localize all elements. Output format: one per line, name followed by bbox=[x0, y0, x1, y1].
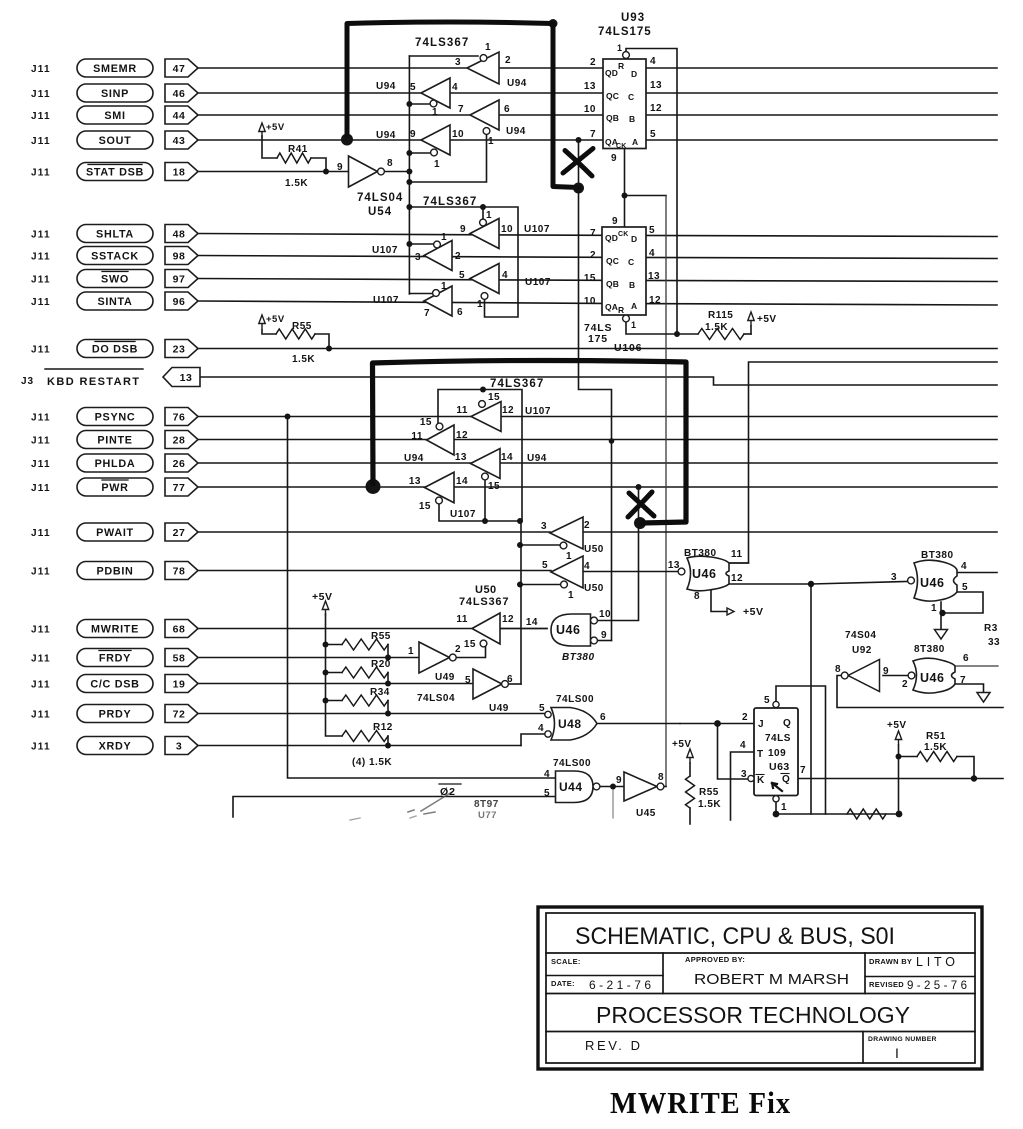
svg-text:2: 2 bbox=[590, 57, 596, 68]
wire PINTE row bbox=[198, 439, 997, 441]
svg-text:STAT DSB: STAT DSB bbox=[86, 166, 144, 178]
inverter U92 74S04 bbox=[848, 660, 880, 692]
wire SHLTA row bbox=[198, 234, 997, 237]
pin bubble U49a out bbox=[449, 654, 456, 661]
svg-text:BT380: BT380 bbox=[684, 548, 717, 559]
buffer U50 gate2 (PDBIN) bbox=[551, 556, 583, 588]
svg-text:U48: U48 bbox=[558, 717, 582, 731]
wire SINTA row bbox=[198, 301, 997, 305]
svg-text:U45: U45 bbox=[636, 808, 656, 819]
svg-text:U54: U54 bbox=[368, 206, 392, 218]
junction bold stub blob bbox=[573, 183, 584, 194]
svg-text:A: A bbox=[632, 137, 638, 147]
svg-text:8: 8 bbox=[835, 664, 841, 675]
svg-text:76: 76 bbox=[173, 411, 186, 423]
svg-text:58: 58 bbox=[173, 652, 186, 664]
wire PDBIN right of buffer into U46b pin13 bbox=[580, 571, 679, 573]
power +5V tag at U46b pin8 bbox=[727, 608, 734, 615]
svg-text:9: 9 bbox=[616, 775, 622, 786]
svg-text:13: 13 bbox=[584, 81, 596, 92]
svg-text:QB: QB bbox=[606, 279, 619, 289]
svg-text:+5V: +5V bbox=[757, 314, 777, 325]
svg-text:2: 2 bbox=[902, 679, 908, 690]
svg-text:10: 10 bbox=[599, 609, 611, 620]
svg-text:BT380: BT380 bbox=[921, 550, 954, 561]
svg-text:C: C bbox=[628, 257, 634, 267]
pin 27 edge connector bbox=[165, 523, 198, 541]
svg-text:68: 68 bbox=[173, 623, 186, 635]
svg-text:+5V: +5V bbox=[743, 606, 763, 618]
node PINTE connector label bbox=[77, 431, 153, 449]
svg-text:74LS367: 74LS367 bbox=[490, 378, 544, 390]
svg-text:A: A bbox=[631, 301, 637, 311]
junction top bold corner bbox=[549, 19, 558, 28]
svg-text:SHLTA: SHLTA bbox=[96, 228, 134, 240]
svg-text:U107: U107 bbox=[525, 277, 551, 288]
svg-text:5: 5 bbox=[650, 129, 656, 140]
wire U94d enable stub bbox=[409, 152, 431, 154]
svg-text:1: 1 bbox=[568, 590, 574, 601]
resistor R115 1.5K bbox=[698, 329, 744, 340]
svg-text:U94: U94 bbox=[506, 126, 526, 137]
svg-text:77: 77 bbox=[173, 482, 186, 494]
svg-text:96: 96 bbox=[173, 296, 186, 308]
pin bubble U50a bbox=[560, 542, 567, 549]
svg-text:9: 9 bbox=[460, 224, 466, 235]
wire U92 input feedback loop bbox=[837, 676, 1003, 708]
pin bubble U107D bbox=[433, 290, 440, 297]
svg-text:DRAWING NUMBER: DRAWING NUMBER bbox=[868, 1036, 937, 1043]
svg-text:Q: Q bbox=[782, 774, 790, 785]
junction DO DSB pull-up bbox=[326, 346, 332, 352]
cut mark X1 (SOUT tap) bbox=[563, 149, 593, 177]
svg-text:11: 11 bbox=[731, 549, 743, 560]
wire PWAIT row bbox=[198, 531, 550, 533]
svg-text:PWR: PWR bbox=[101, 482, 128, 494]
inverter U54 74LS04 (STAT DSB) bbox=[349, 156, 378, 187]
svg-text:2: 2 bbox=[742, 712, 748, 723]
ground arrow U46d pin7 bbox=[977, 693, 990, 703]
svg-text:11: 11 bbox=[456, 614, 468, 625]
wire U63 pin5 preset bbox=[776, 686, 826, 814]
svg-text:PWAIT: PWAIT bbox=[96, 527, 134, 539]
wire U46b pin12 node drop bbox=[810, 584, 812, 814]
svg-text:U107: U107 bbox=[372, 245, 398, 256]
svg-text:R115: R115 bbox=[708, 310, 733, 321]
wire U50a enable stub bbox=[520, 544, 560, 546]
wire U50c enable from U49 bbox=[453, 647, 486, 658]
wire U46b pin8 to +5V tag bbox=[711, 590, 727, 612]
junction clock branch bbox=[622, 193, 628, 199]
wire R55f below bbox=[689, 763, 691, 776]
svg-text:4: 4 bbox=[452, 82, 458, 93]
buffer U107 gate B (SSTACK) bbox=[424, 241, 452, 271]
svg-text:15: 15 bbox=[488, 481, 500, 492]
wire U93 CK to U106 CK bbox=[624, 149, 626, 228]
node SWO connector label bbox=[77, 270, 153, 288]
svg-text:1.5K: 1.5K bbox=[285, 178, 308, 189]
pin bubble U93 reset p1 bbox=[623, 52, 630, 59]
junction PWR tap bbox=[636, 484, 642, 490]
svg-text:(4) 1.5K: (4) 1.5K bbox=[352, 757, 392, 768]
svg-text:U92: U92 bbox=[852, 645, 872, 656]
svg-text:SWO: SWO bbox=[101, 273, 129, 285]
wire U46b pin12 to U46c pin3 bbox=[729, 582, 907, 585]
gate U46 8T380 (first driver) bbox=[687, 556, 729, 591]
svg-text:11: 11 bbox=[456, 405, 468, 416]
svg-text:LITO: LITO bbox=[916, 955, 955, 969]
wire R51 to Qbar bbox=[957, 757, 974, 779]
pin bubble U107A bbox=[480, 219, 487, 226]
buffer U107 gate A (SHLTA) 74LS367 bbox=[470, 219, 499, 249]
svg-text:12: 12 bbox=[731, 573, 743, 584]
pin 58 edge connector bbox=[165, 649, 198, 667]
svg-text:J11: J11 bbox=[31, 653, 51, 664]
junction en U107c/d bbox=[482, 518, 488, 524]
junction PINTE tap bbox=[609, 438, 615, 444]
svg-text:15: 15 bbox=[419, 501, 431, 512]
svg-text:5: 5 bbox=[542, 560, 548, 571]
svg-text:47: 47 bbox=[173, 63, 186, 75]
svg-text:72: 72 bbox=[173, 708, 186, 720]
wire U63 Qbar pin7 bbox=[798, 778, 1003, 780]
pin bubble U46b p13 bbox=[678, 568, 685, 575]
svg-text:C: C bbox=[628, 92, 634, 102]
svg-text:5: 5 bbox=[410, 82, 416, 93]
resistor R34 1.5K bbox=[342, 695, 388, 706]
pin bubble U45 out bbox=[657, 783, 664, 790]
wire bold fix trace top bbox=[347, 22, 579, 188]
wire U106 reset pin1 bbox=[626, 322, 698, 334]
wire C/C DSB row bbox=[198, 683, 473, 685]
svg-text:J3: J3 bbox=[21, 376, 34, 387]
svg-text:+5V: +5V bbox=[672, 739, 692, 750]
svg-text:74LS367: 74LS367 bbox=[459, 596, 509, 608]
wire U49b output to rail bbox=[508, 683, 521, 685]
svg-text:J11: J11 bbox=[31, 435, 51, 446]
junction R20/CC bbox=[385, 681, 391, 687]
svg-text:13: 13 bbox=[648, 271, 660, 282]
node STAT DSB connector label bbox=[77, 163, 153, 181]
svg-text:+5V: +5V bbox=[266, 314, 285, 325]
svg-text:PHLDA: PHLDA bbox=[95, 458, 136, 470]
wire U63 J input bbox=[680, 723, 754, 725]
node MWRITE connector label bbox=[77, 620, 153, 638]
wire U45 output to rail bbox=[664, 786, 666, 788]
pin 19 edge connector bbox=[165, 675, 198, 693]
wire XRDY row bbox=[198, 745, 521, 747]
svg-text:12: 12 bbox=[649, 295, 661, 306]
svg-text:12: 12 bbox=[502, 614, 514, 625]
junction U48/J/K node bbox=[714, 720, 721, 727]
resistor R55 vertical near U63 1.5K bbox=[686, 776, 695, 808]
inverter U45 8T97 bbox=[624, 772, 657, 801]
svg-text:5: 5 bbox=[544, 788, 550, 799]
svg-text:46: 46 bbox=[173, 88, 186, 100]
pin bubble U48 p4 bbox=[545, 731, 551, 737]
wire 74LS367 group2 enable bbox=[409, 207, 518, 317]
svg-text:2: 2 bbox=[455, 644, 461, 655]
svg-text:SMI: SMI bbox=[104, 110, 125, 122]
svg-text:10: 10 bbox=[584, 296, 596, 307]
pin bubble U44 out bbox=[593, 783, 600, 790]
svg-text:1: 1 bbox=[488, 136, 494, 147]
junction R51 tap bbox=[896, 754, 902, 760]
wire U63 reset pin1 net bbox=[776, 802, 899, 814]
svg-text:J11: J11 bbox=[31, 344, 51, 355]
svg-text:QB: QB bbox=[606, 113, 619, 123]
node SHLTA connector label bbox=[77, 225, 153, 243]
junction R41/STATDSB bbox=[323, 169, 329, 175]
buffer U50 gate3 (MWRITE) bbox=[472, 613, 500, 644]
svg-text:R55: R55 bbox=[699, 787, 719, 798]
svg-text:XRDY: XRDY bbox=[99, 740, 132, 752]
svg-text:J11: J11 bbox=[31, 709, 51, 720]
svg-text:1.5K: 1.5K bbox=[698, 799, 721, 810]
pin bubble U107 psync bbox=[479, 401, 486, 408]
buffer U107 gate C (SWO) bbox=[470, 264, 499, 294]
svg-text:+5V: +5V bbox=[266, 122, 285, 133]
power +5V arrow R41 bbox=[259, 123, 265, 137]
svg-text:4: 4 bbox=[544, 769, 550, 780]
pin 46 edge connector bbox=[165, 84, 198, 102]
node C/C DSB connector label bbox=[77, 675, 153, 693]
svg-text:7: 7 bbox=[960, 675, 966, 686]
junction R55/FRDY bbox=[385, 655, 391, 661]
node PDBIN connector label bbox=[77, 562, 153, 580]
wire PSYNC row bbox=[198, 416, 997, 418]
svg-text:1: 1 bbox=[486, 210, 492, 221]
svg-text:QC: QC bbox=[606, 256, 619, 266]
svg-text:R55: R55 bbox=[292, 321, 312, 332]
wire STAT DSB row bbox=[198, 171, 349, 173]
junction R51/Qbar bbox=[971, 775, 977, 781]
power +5V arrow R51 bbox=[895, 731, 901, 745]
svg-text:78: 78 bbox=[173, 565, 186, 577]
svg-text:QA: QA bbox=[605, 302, 618, 312]
pin bubble U48 p5 bbox=[545, 711, 551, 717]
wire U46a pin9 to rail bbox=[598, 640, 612, 642]
svg-text:175: 175 bbox=[588, 333, 608, 345]
svg-text:KBD RESTART: KBD RESTART bbox=[47, 376, 140, 388]
svg-text:5: 5 bbox=[764, 695, 770, 706]
junction rail en g3 bbox=[406, 179, 412, 185]
svg-text:U46: U46 bbox=[556, 623, 580, 637]
pin bubble U94g3 bbox=[483, 128, 490, 135]
junction reset net right bbox=[896, 811, 903, 818]
wire PRDY row bbox=[198, 713, 545, 715]
pin 18 edge connector bbox=[165, 163, 198, 181]
wire mid enable line y389 bbox=[438, 390, 522, 522]
wire U46c pin5 loop bbox=[945, 592, 984, 613]
svg-text:APPROVED BY:: APPROVED BY: bbox=[685, 955, 745, 964]
pin bubble U46a p9 bbox=[591, 637, 598, 644]
buffer U94 gate (PHLDA) bbox=[471, 449, 501, 479]
svg-text:U107: U107 bbox=[450, 509, 476, 520]
svg-text:14: 14 bbox=[526, 617, 538, 628]
power +5V arrow R115 bbox=[748, 312, 754, 326]
svg-text:3: 3 bbox=[541, 521, 547, 532]
junction rail grp2 bbox=[406, 204, 412, 210]
IC U106 74LS175 quad flip-flop bbox=[602, 227, 646, 315]
svg-text:74LS04: 74LS04 bbox=[357, 192, 403, 204]
svg-text:13: 13 bbox=[455, 452, 467, 463]
svg-text:12: 12 bbox=[456, 430, 468, 441]
svg-text:J11: J11 bbox=[31, 741, 51, 752]
wire R51 left bbox=[899, 756, 918, 758]
pin bubble U54 out bbox=[378, 168, 385, 175]
svg-text:U106: U106 bbox=[614, 342, 642, 354]
svg-text:U50: U50 bbox=[584, 544, 604, 555]
svg-text:109: 109 bbox=[768, 748, 786, 759]
pin bubble U106 reset p1 bbox=[623, 315, 630, 322]
svg-text:33: 33 bbox=[988, 637, 1000, 648]
junction rail en g2 bbox=[406, 101, 412, 107]
svg-text:13: 13 bbox=[409, 476, 421, 487]
svg-text:SSTACK: SSTACK bbox=[91, 250, 139, 262]
svg-text:1: 1 bbox=[931, 603, 937, 614]
pin 48 edge connector bbox=[165, 225, 198, 243]
resistor R55 top wiring bbox=[262, 330, 276, 334]
pin 28 edge connector bbox=[165, 431, 198, 449]
U63 R clock arrow glyph bbox=[772, 783, 782, 791]
wire U107c enable drop bbox=[484, 480, 486, 522]
svg-text:74LS00: 74LS00 bbox=[556, 694, 594, 705]
svg-text:1: 1 bbox=[485, 42, 491, 53]
wire U46b pin11 bbox=[729, 562, 749, 564]
svg-text:74LS367: 74LS367 bbox=[423, 196, 477, 208]
svg-text:3: 3 bbox=[891, 572, 897, 583]
resistor R41 wiring bbox=[262, 136, 277, 158]
svg-text:6: 6 bbox=[963, 653, 969, 664]
svg-text:4: 4 bbox=[961, 561, 967, 572]
svg-text:2: 2 bbox=[455, 251, 461, 262]
svg-text:15: 15 bbox=[464, 639, 476, 650]
buffer U94 gate1 (SMEMR) 74LS367 bbox=[467, 52, 499, 84]
wire SOUT row bbox=[198, 139, 997, 141]
wire net right of U93 reset corner bbox=[729, 362, 997, 563]
svg-text:1: 1 bbox=[566, 551, 572, 562]
svg-text:J11: J11 bbox=[31, 167, 51, 178]
svg-text:T: T bbox=[757, 749, 764, 760]
pin 23 edge connector bbox=[165, 340, 198, 358]
junction grp2 en right bbox=[480, 204, 486, 210]
junction U46c p1/p5 bbox=[939, 610, 945, 616]
junction SOUT/bold fix bbox=[341, 134, 353, 146]
gate U46 8T380 (second driver right) bbox=[914, 560, 957, 601]
wire U48 output to J node bbox=[597, 723, 680, 725]
svg-text:R3: R3 bbox=[984, 623, 998, 634]
wire U93/U106 reset pull-up rail bbox=[626, 49, 677, 335]
junction U54 out rail bbox=[406, 169, 412, 175]
pin bubble U50c en15 bbox=[480, 640, 487, 647]
svg-text:PROCESSOR TECHNOLOGY: PROCESSOR TECHNOLOGY bbox=[596, 1002, 910, 1028]
svg-text:SCALE:: SCALE: bbox=[551, 957, 581, 966]
svg-text:74LS: 74LS bbox=[765, 733, 791, 744]
svg-text:98: 98 bbox=[173, 250, 186, 262]
wire U44 output node bbox=[600, 786, 624, 788]
svg-text:J11: J11 bbox=[31, 229, 51, 240]
svg-text:U63: U63 bbox=[769, 761, 790, 773]
svg-text:44: 44 bbox=[173, 110, 186, 122]
pin bubble U46c p3 bbox=[908, 577, 915, 584]
svg-text:2: 2 bbox=[584, 520, 590, 531]
svg-text:8: 8 bbox=[694, 591, 700, 602]
svg-text:4: 4 bbox=[740, 740, 746, 751]
svg-text:DATE:: DATE: bbox=[551, 979, 575, 988]
svg-text:5: 5 bbox=[465, 675, 471, 686]
svg-text:1: 1 bbox=[408, 646, 414, 657]
wire PWAIT right of buffer bbox=[583, 531, 997, 533]
svg-text:1.5K: 1.5K bbox=[705, 322, 728, 333]
wire U46c pin1 to arrow bbox=[940, 602, 942, 629]
wire SOUT tap rail x578 bbox=[579, 140, 612, 641]
svg-text:R12: R12 bbox=[373, 722, 393, 733]
junction PWR bold blob bbox=[366, 479, 381, 494]
svg-text:4: 4 bbox=[649, 248, 655, 259]
node FRDY connector label bbox=[77, 649, 153, 667]
svg-text:1: 1 bbox=[441, 281, 447, 292]
svg-text:74LS00: 74LS00 bbox=[553, 758, 591, 769]
wire U46a pin10 to cut point bbox=[598, 487, 639, 621]
svg-text:8T380: 8T380 bbox=[914, 644, 945, 655]
wire FRDY row bbox=[198, 657, 419, 659]
buffer U94 gate (PINTE) bbox=[427, 425, 455, 455]
junction U44 out node bbox=[610, 784, 616, 790]
pin bubble U92 in8 bbox=[841, 672, 848, 679]
svg-text:K: K bbox=[757, 775, 765, 786]
pin bubble U94 pinte bbox=[436, 423, 443, 430]
node SSTACK connector label bbox=[77, 247, 153, 265]
svg-text:3: 3 bbox=[455, 57, 461, 68]
svg-text:4: 4 bbox=[584, 561, 590, 572]
svg-text:U49: U49 bbox=[435, 672, 455, 683]
wire PDBIN row bbox=[198, 570, 551, 572]
svg-text:J11: J11 bbox=[31, 297, 51, 308]
junction en rail mid bbox=[517, 518, 523, 524]
junction en U50a bbox=[517, 542, 523, 548]
wire U107pwr enable drop bbox=[439, 504, 520, 522]
svg-text:QC: QC bbox=[606, 91, 619, 101]
wire MWRITE buffer input to U46 bbox=[500, 628, 547, 630]
svg-text:U77: U77 bbox=[478, 810, 497, 821]
wire +5V drop to R-net bbox=[898, 745, 900, 814]
wire SWO row bbox=[198, 279, 997, 282]
svg-text:SOUT: SOUT bbox=[99, 135, 132, 147]
svg-text:1.5K: 1.5K bbox=[292, 354, 315, 365]
svg-text:J11: J11 bbox=[31, 528, 51, 539]
pin bubble U94 phlda bbox=[482, 473, 489, 480]
junction rail en g4 bbox=[406, 150, 412, 156]
svg-text:5: 5 bbox=[962, 582, 968, 593]
wire long clock rail x666 bbox=[665, 196, 667, 787]
title block outer frame bbox=[538, 907, 982, 1069]
pin bubble U46a p10 bbox=[591, 617, 598, 624]
wire phi2 line to U44 pin5 bbox=[233, 797, 556, 818]
svg-text:J11: J11 bbox=[31, 274, 51, 285]
svg-text:7: 7 bbox=[458, 104, 464, 115]
junction R34/PRDY bbox=[385, 711, 391, 717]
pin 76 edge connector bbox=[165, 408, 198, 426]
pin 72 edge connector bbox=[165, 705, 198, 723]
pin 68 edge connector bbox=[165, 620, 198, 638]
svg-text:U93: U93 bbox=[621, 12, 645, 24]
wire U107d enable stub bbox=[409, 293, 432, 295]
wire KBD RESTART row with jog bbox=[200, 377, 997, 385]
svg-text:26: 26 bbox=[173, 458, 186, 470]
wire PHLDA row bbox=[198, 462, 997, 464]
svg-text:QD: QD bbox=[605, 68, 618, 78]
